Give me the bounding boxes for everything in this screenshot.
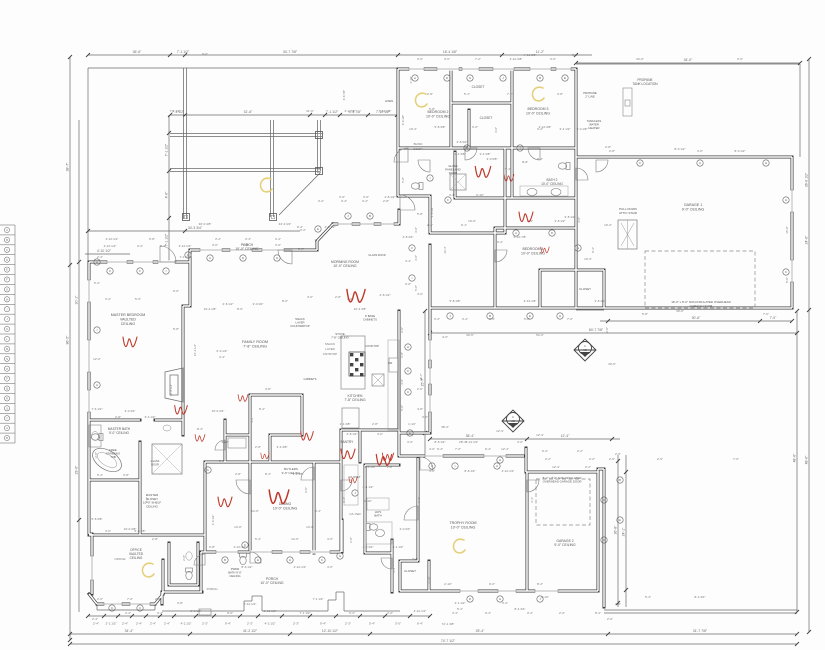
- svg-text:PORCH: PORCH: [207, 587, 218, 591]
- svg-text:TUB: TUB: [110, 455, 116, 459]
- svg-text:4'-6": 4'-6": [307, 295, 313, 299]
- svg-text:2'-8": 2'-8": [372, 422, 378, 426]
- svg-text:2'-4": 2'-4": [92, 617, 98, 621]
- svg-text:5'-4": 5'-4": [505, 167, 511, 171]
- svg-text:3'-8": 3'-8": [177, 601, 183, 605]
- svg-text:10'-3": 10'-3": [584, 257, 592, 261]
- svg-text:B: B: [369, 214, 371, 218]
- svg-text:8'-0": 8'-0": [237, 307, 243, 311]
- svg-text:38'-4": 38'-4": [466, 434, 475, 438]
- svg-text:6'-0 1/2": 6'-0 1/2": [217, 349, 228, 353]
- svg-text:10'-0" CEILING: 10'-0" CEILING: [426, 114, 450, 118]
- svg-text:CEILING: CEILING: [146, 504, 159, 508]
- svg-text:TROPHY ROOM: TROPHY ROOM: [449, 521, 476, 525]
- svg-text:B: B: [619, 478, 621, 482]
- svg-text:10'-0" CEILING: 10'-0" CEILING: [451, 525, 476, 529]
- svg-text:41'-2 1/2": 41'-2 1/2": [243, 629, 258, 633]
- svg-text:P: P: [6, 377, 8, 381]
- svg-text:2'-4": 2'-4": [150, 622, 156, 626]
- svg-text:3'-0": 3'-0": [275, 243, 281, 247]
- svg-text:11'-2": 11'-2": [536, 50, 545, 54]
- svg-text:5'-4": 5'-4": [97, 473, 103, 477]
- svg-text:2'-10": 2'-10": [541, 595, 549, 599]
- svg-text:54'-0": 54'-0": [536, 333, 544, 337]
- svg-text:13'-4": 13'-4": [443, 246, 447, 253]
- svg-text:12'-4": 12'-4": [496, 429, 504, 433]
- svg-text:7'-1 1/2": 7'-1 1/2": [300, 611, 311, 615]
- svg-text:GLASS DOOR: GLASS DOOR: [368, 253, 385, 257]
- svg-text:3'-8 1/2": 3'-8 1/2": [565, 215, 576, 219]
- svg-text:4'-10 1/2": 4'-10 1/2": [106, 237, 119, 241]
- svg-text:2'-3": 2'-3": [345, 622, 351, 626]
- svg-text:4'-0": 4'-0": [442, 335, 448, 339]
- svg-text:8'-8 1/2": 8'-8 1/2": [435, 440, 446, 444]
- svg-text:6'-8": 6'-8": [149, 237, 155, 241]
- svg-text:F: F: [6, 278, 8, 282]
- svg-text:CLOSET: CLOSET: [404, 569, 416, 573]
- svg-text:2'-8 1/2": 2'-8 1/2": [347, 432, 358, 436]
- svg-text:3'-4": 3'-4": [275, 237, 281, 241]
- svg-text:3'-4": 3'-4": [362, 199, 368, 203]
- svg-text:6'-8": 6'-8": [400, 352, 404, 358]
- svg-text:6'-4": 6'-4": [417, 622, 423, 626]
- svg-text:9'-4": 9'-4": [225, 622, 231, 626]
- svg-text:9'-4": 9'-4": [485, 447, 491, 451]
- svg-text:24'-1": 24'-1": [622, 527, 626, 536]
- svg-text:10'-3": 10'-3": [604, 223, 612, 227]
- svg-text:4'-0": 4'-0": [417, 292, 423, 296]
- svg-text:7'-0": 7'-0": [770, 316, 778, 320]
- svg-text:3'-0 1/8": 3'-0 1/8": [577, 127, 588, 131]
- svg-text:4'-10 1/2": 4'-10 1/2": [97, 249, 112, 253]
- svg-text:30'-6": 30'-6": [608, 362, 616, 366]
- svg-text:ATTIC STAIR: ATTIC STAIR: [619, 211, 638, 215]
- svg-text:9'-4": 9'-4": [320, 622, 326, 626]
- svg-text:3'-8 1/2": 3'-8 1/2": [555, 219, 566, 223]
- svg-text:E: E: [257, 558, 259, 562]
- svg-text:CNTRTOP: CNTRTOP: [323, 352, 337, 356]
- svg-text:BATH: BATH: [374, 514, 381, 518]
- svg-text:7'-1 1/2": 7'-1 1/2": [177, 50, 190, 54]
- svg-text:2'-2": 2'-2": [585, 465, 591, 469]
- svg-text:2'-0": 2'-0": [97, 597, 103, 601]
- svg-text:4'-0": 4'-0": [407, 440, 413, 444]
- svg-text:12'-0": 12'-0": [93, 357, 101, 361]
- svg-text:3'-4": 3'-4": [215, 237, 221, 241]
- svg-text:3'-4 3/8": 3'-4 3/8": [293, 472, 304, 476]
- svg-text:10'-0 3/4": 10'-0 3/4": [212, 409, 225, 413]
- svg-text:3'-4": 3'-4": [137, 244, 143, 248]
- svg-text:14'-0": 14'-0": [291, 537, 299, 541]
- svg-text:4'-10 1/2": 4'-10 1/2": [104, 244, 117, 248]
- svg-text:16'-4 1/8": 16'-4 1/8": [443, 50, 458, 54]
- svg-text:3'-4": 3'-4": [392, 567, 396, 573]
- svg-text:8'-0": 8'-0": [282, 299, 288, 303]
- svg-text:2'-0": 2'-0": [400, 327, 404, 333]
- svg-text:GARAGE DOOR: GARAGE DOOR: [690, 304, 714, 308]
- svg-text:H: H: [559, 314, 561, 318]
- svg-text:2'-4": 2'-4": [136, 622, 142, 626]
- svg-text:K: K: [699, 161, 701, 165]
- svg-text:3'-8 1/2": 3'-8 1/2": [595, 299, 606, 303]
- svg-text:9'-4": 9'-4": [485, 611, 491, 615]
- svg-text:30'-6": 30'-6": [692, 316, 701, 320]
- svg-text:3'-0": 3'-0": [572, 53, 578, 57]
- svg-text:4'-8 3/4": 4'-8 3/4": [457, 140, 468, 144]
- svg-text:10'-0" CEILING: 10'-0" CEILING: [273, 506, 298, 510]
- svg-text:3'-4": 3'-4": [349, 611, 355, 615]
- svg-text:34'-3 3/4": 34'-3 3/4": [188, 226, 203, 230]
- svg-text:A2: A2: [583, 348, 587, 352]
- svg-text:DOOR: DOOR: [414, 147, 424, 151]
- svg-text:2'-0 1/2": 2'-0 1/2": [191, 609, 202, 613]
- svg-text:CEILING: CEILING: [229, 574, 240, 578]
- svg-text:9'-8 7/8": 9'-8 7/8": [342, 90, 346, 101]
- svg-text:3'-8": 3'-8": [209, 545, 215, 549]
- svg-text:5'-8 1/8": 5'-8 1/8": [450, 299, 461, 303]
- svg-text:16'-8": 16'-8": [785, 226, 789, 233]
- svg-text:3'-0": 3'-0": [417, 57, 423, 61]
- svg-text:2'-10": 2'-10": [444, 582, 452, 586]
- svg-text:4'-0": 4'-0": [327, 565, 333, 569]
- svg-text:7'-0": 7'-0": [127, 597, 133, 601]
- svg-text:5'-4": 5'-4": [255, 537, 261, 541]
- svg-text:2'-8": 2'-8": [427, 223, 433, 227]
- svg-text:3'-4": 3'-4": [530, 497, 534, 503]
- svg-text:2'-0": 2'-0": [155, 597, 161, 601]
- svg-text:3'-4 3/8": 3'-4 3/8": [480, 152, 491, 156]
- svg-text:2'-6": 2'-6": [657, 457, 663, 461]
- svg-text:3'-0": 3'-0": [339, 195, 345, 199]
- svg-text:14'-0": 14'-0": [251, 509, 259, 513]
- svg-text:2'-8": 2'-8": [235, 472, 241, 476]
- svg-text:3'-4": 3'-4": [157, 611, 163, 615]
- svg-text:A: A: [6, 228, 8, 232]
- svg-text:4'-10 1/2": 4'-10 1/2": [414, 609, 427, 613]
- svg-text:3'-4": 3'-4": [125, 611, 131, 615]
- svg-text:2'-2": 2'-2": [545, 457, 551, 461]
- svg-text:LAYER: LAYER: [325, 347, 335, 351]
- svg-text:A: A: [414, 76, 416, 80]
- svg-text:3'-4 1/2": 3'-4 1/2": [145, 415, 156, 419]
- svg-text:4'-0 3/4": 4'-0 3/4": [363, 545, 374, 549]
- svg-text:2'-8": 2'-8": [152, 537, 158, 541]
- svg-text:9'-0": 9'-0": [227, 611, 233, 615]
- svg-text:5'-8": 5'-8": [524, 317, 530, 321]
- svg-text:H: H: [785, 198, 787, 202]
- svg-text:2'-4": 2'-4": [164, 622, 170, 626]
- svg-text:2'-8": 2'-8": [115, 415, 121, 419]
- svg-text:2'-8": 2'-8": [609, 149, 615, 153]
- svg-text:7'-8" CEILING: 7'-8" CEILING: [344, 398, 366, 402]
- svg-text:3'-8": 3'-8": [557, 92, 563, 96]
- svg-text:4'-0": 4'-0": [429, 469, 435, 473]
- svg-text:7'-6": 7'-6": [567, 317, 573, 321]
- svg-text:3'-4 3/8": 3'-4 3/8": [455, 152, 466, 156]
- svg-text:36'-6": 36'-6": [133, 50, 142, 54]
- svg-text:3'-4": 3'-4": [462, 317, 468, 321]
- svg-text:5'-4": 5'-4": [369, 622, 375, 626]
- svg-text:4'-4": 4'-4": [405, 259, 411, 263]
- svg-text:E: E: [317, 227, 319, 231]
- svg-text:4'-0 1/2": 4'-0 1/2": [211, 515, 215, 526]
- svg-text:2'-2": 2'-2": [589, 457, 595, 461]
- svg-text:5'-8": 5'-8": [173, 327, 179, 331]
- svg-text:10'-9": 10'-9": [468, 219, 476, 223]
- svg-text:24'-6": 24'-6": [805, 235, 809, 244]
- svg-text:3'-0": 3'-0": [472, 125, 478, 129]
- svg-text:4'-8 1/2": 4'-8 1/2": [385, 195, 396, 199]
- svg-text:4'-0": 4'-0": [429, 447, 435, 451]
- svg-text:4'-8 3/4": 4'-8 3/4": [403, 235, 414, 239]
- svg-text:36'-8": 36'-8": [614, 525, 618, 534]
- svg-text:34'-3 3/4": 34'-3 3/4": [279, 222, 292, 226]
- svg-text:FAMILY ROOM: FAMILY ROOM: [242, 340, 268, 344]
- svg-text:7'-2": 7'-2": [507, 92, 513, 96]
- svg-text:3'-0": 3'-0": [363, 195, 369, 199]
- svg-text:A: A: [96, 383, 98, 387]
- svg-text:2'-8": 2'-8": [387, 465, 393, 469]
- svg-text:HEATER: HEATER: [588, 126, 599, 130]
- svg-text:OVERHEAD GARAGE DOOR: OVERHEAD GARAGE DOOR: [543, 480, 582, 484]
- svg-text:4'-0": 4'-0": [327, 537, 333, 541]
- svg-text:10'-4": 10'-4": [409, 127, 417, 131]
- svg-text:8'-4 3/4": 8'-4 3/4": [695, 595, 706, 599]
- svg-text:9'-0 1/8": 9'-0 1/8": [401, 115, 405, 126]
- svg-text:7'-0": 7'-0": [763, 312, 769, 316]
- svg-text:3'-4": 3'-4": [250, 417, 254, 423]
- svg-text:4'-10 1/2": 4'-10 1/2": [294, 565, 307, 569]
- svg-text:31'-7 7/8": 31'-7 7/8": [693, 629, 708, 633]
- svg-text:2'-4": 2'-4": [97, 255, 103, 259]
- svg-text:4'-10 3/8": 4'-10 3/8": [539, 125, 552, 129]
- svg-text:2'-0": 2'-0": [559, 611, 565, 615]
- svg-text:3'-0": 3'-0": [219, 459, 225, 463]
- svg-text:5'-8 3/8": 5'-8 3/8": [435, 125, 446, 129]
- svg-text:8'-8 1/2": 8'-8 1/2": [465, 469, 476, 473]
- svg-text:1'-4 3/8": 1'-4 3/8": [365, 465, 376, 469]
- svg-text:8'-4": 8'-4": [537, 582, 543, 586]
- svg-text:84'-7 7/8": 84'-7 7/8": [589, 328, 604, 332]
- svg-text:9'-0": 9'-0": [173, 289, 179, 293]
- svg-text:5'-8": 5'-8": [429, 107, 435, 111]
- svg-text:9'-0": 9'-0": [304, 487, 308, 493]
- svg-text:TANK LOCATION: TANK LOCATION: [632, 82, 658, 86]
- svg-text:2'-6": 2'-6": [607, 617, 613, 621]
- svg-text:E: E: [564, 76, 566, 80]
- svg-text:B: B: [539, 76, 541, 80]
- svg-text:8'-4": 8'-4": [197, 427, 203, 431]
- svg-text:10'-0" CEILING: 10'-0" CEILING: [541, 182, 563, 186]
- svg-text:K: K: [321, 558, 323, 562]
- svg-text:F: F: [139, 269, 141, 273]
- svg-text:34'-7 7/8": 34'-7 7/8": [283, 50, 298, 54]
- svg-text:3'-4 1/2": 3'-4 1/2": [560, 127, 571, 131]
- svg-text:SNACK: SNACK: [325, 342, 335, 346]
- svg-text:CEILING: CEILING: [130, 556, 143, 560]
- svg-text:25'-7": 25'-7": [419, 373, 423, 380]
- svg-text:2'-10": 2'-10": [364, 499, 372, 503]
- svg-text:25'-4": 25'-4": [476, 629, 485, 633]
- svg-text:2'-6": 2'-6": [609, 457, 615, 461]
- svg-text:D: D: [6, 258, 8, 262]
- svg-text:9'-4": 9'-4": [297, 225, 303, 229]
- svg-text:3'-0": 3'-0": [422, 415, 428, 419]
- svg-text:CLOSET: CLOSET: [472, 85, 485, 89]
- svg-text:GARAGE 1: GARAGE 1: [684, 203, 702, 207]
- svg-text:3'-0": 3'-0": [414, 227, 418, 233]
- svg-text:12'-10 1/2": 12'-10 1/2": [322, 629, 339, 633]
- svg-text:SEAT: SEAT: [221, 440, 228, 444]
- svg-text:B: B: [6, 238, 8, 242]
- svg-text:34'-4": 34'-4": [125, 629, 134, 633]
- svg-text:CLOSET: CLOSET: [349, 475, 360, 479]
- svg-text:E: E: [409, 431, 411, 435]
- svg-text:DOOR: DOOR: [449, 171, 457, 175]
- svg-text:4'-4": 4'-4": [219, 355, 225, 359]
- svg-text:3'-0": 3'-0": [395, 622, 401, 626]
- svg-text:5'-4": 5'-4": [145, 497, 149, 503]
- svg-text:36'-6 1/2": 36'-6 1/2": [805, 172, 809, 187]
- svg-text:H: H: [6, 297, 8, 301]
- svg-text:VAULTED: VAULTED: [120, 317, 136, 321]
- svg-text:2'-8 1/2": 2'-8 1/2": [223, 302, 234, 306]
- svg-text:16'-4 1/8": 16'-4 1/8": [204, 307, 217, 311]
- svg-text:12'-4": 12'-4": [561, 434, 570, 438]
- svg-text:4'-10 1/2": 4'-10 1/2": [502, 469, 515, 473]
- svg-text:2'-10 1/2": 2'-10 1/2": [244, 602, 257, 606]
- svg-text:8'-4": 8'-4": [259, 407, 265, 411]
- svg-text:48'-6": 48'-6": [805, 455, 809, 464]
- svg-text:CABINETS: CABINETS: [304, 377, 317, 381]
- svg-text:4'-6": 4'-6": [165, 191, 169, 199]
- svg-text:2'-3": 2'-3": [293, 622, 299, 626]
- svg-text:74'-7 1/2": 74'-7 1/2": [441, 639, 456, 643]
- svg-text:3'-0 5/8": 3'-0 5/8": [487, 157, 498, 161]
- svg-text:N: N: [6, 357, 8, 361]
- svg-text:8'-0 1/2": 8'-0 1/2": [735, 149, 746, 153]
- svg-text:A: A: [496, 464, 498, 468]
- svg-text:3'-8": 3'-8": [298, 247, 304, 251]
- svg-text:9'-8": 9'-8": [417, 497, 421, 503]
- svg-text:A: A: [6, 426, 8, 430]
- svg-text:10'-0" CEILING: 10'-0" CEILING: [235, 247, 259, 251]
- svg-text:9'-4": 9'-4": [522, 160, 528, 164]
- svg-text:CEILING: CEILING: [121, 322, 136, 326]
- svg-text:7'-1 1/2": 7'-1 1/2": [165, 143, 169, 156]
- svg-text:S: S: [6, 406, 8, 410]
- svg-text:K: K: [785, 270, 787, 274]
- svg-text:28'-4": 28'-4": [459, 440, 467, 444]
- svg-text:16'-4 1/2": 16'-4 1/2": [193, 344, 197, 356]
- svg-text:3'-0": 3'-0": [405, 282, 411, 286]
- svg-text:9'-4": 9'-4": [542, 449, 548, 453]
- svg-text:5'-8": 5'-8": [417, 212, 423, 216]
- svg-text:4'-8": 4'-8": [417, 407, 423, 411]
- svg-text:CLOSET: CLOSET: [480, 116, 493, 120]
- svg-text:30'-0 3/8": 30'-0 3/8": [199, 222, 212, 226]
- svg-text:2'-3": 2'-3": [247, 622, 253, 626]
- svg-text:5'-4": 5'-4": [645, 595, 651, 599]
- svg-text:5'-8": 5'-8": [642, 312, 648, 316]
- svg-text:DOOR: DOOR: [151, 462, 159, 466]
- svg-text:7'-8" CEILING: 7'-8" CEILING: [331, 336, 349, 340]
- svg-text:7'-6 1/2": 7'-6 1/2": [92, 407, 103, 411]
- svg-text:4'-8": 4'-8": [265, 387, 271, 391]
- svg-text:B: B: [466, 146, 468, 150]
- svg-text:9'-0" CEILING: 9'-0" CEILING: [554, 543, 576, 547]
- svg-text:2'-6": 2'-6": [615, 602, 621, 606]
- svg-text:3'-4": 3'-4": [434, 317, 440, 321]
- svg-text:3'-4": 3'-4": [342, 497, 346, 503]
- svg-text:K: K: [407, 369, 409, 373]
- svg-text:3'-4": 3'-4": [160, 244, 166, 248]
- svg-text:2'-4": 2'-4": [122, 622, 128, 626]
- svg-text:PANTRY: PANTRY: [341, 440, 355, 444]
- svg-text:3'-8": 3'-8": [123, 473, 129, 477]
- svg-text:5'-0": 5'-0": [135, 297, 141, 301]
- svg-text:3'-0": 3'-0": [737, 57, 743, 61]
- svg-text:4'-0": 4'-0": [517, 440, 523, 444]
- svg-text:3'-4": 3'-4": [412, 557, 418, 561]
- svg-text:K: K: [6, 327, 8, 331]
- svg-text:CLOSET: CLOSET: [579, 287, 591, 291]
- svg-text:31'-6": 31'-6": [244, 110, 253, 114]
- svg-text:8'-4 3/4": 8'-4 3/4": [515, 607, 526, 611]
- svg-text:7'-1 1/2": 7'-1 1/2": [313, 597, 324, 601]
- svg-text:7'-1 1/2": 7'-1 1/2": [326, 110, 339, 114]
- svg-text:C: C: [6, 248, 8, 252]
- svg-text:MASTER BEDROOM: MASTER BEDROOM: [111, 313, 146, 317]
- svg-text:G: G: [6, 288, 8, 292]
- svg-text:10'-4 3/8": 10'-4 3/8": [354, 307, 367, 311]
- svg-text:E: E: [619, 518, 621, 522]
- svg-text:COUNTERTOP: COUNTERTOP: [290, 324, 310, 328]
- svg-text:3'-4": 3'-4": [497, 240, 503, 244]
- svg-text:GLASS: GLASS: [151, 459, 160, 463]
- svg-text:OFFICE: OFFICE: [115, 557, 126, 561]
- svg-text:5'-8 3/8": 5'-8 3/8": [135, 529, 146, 533]
- svg-text:5'-4": 5'-4": [94, 281, 100, 285]
- svg-text:4'-0 3/4": 4'-0 3/4": [400, 527, 411, 531]
- svg-text:3'-4": 3'-4": [527, 611, 533, 615]
- svg-text:4'-1 1/2": 4'-1 1/2": [393, 545, 404, 549]
- svg-text:2" LINE: 2" LINE: [585, 95, 595, 99]
- svg-text:1'-4 3/8": 1'-4 3/8": [340, 422, 351, 426]
- svg-text:3'-0": 3'-0": [494, 127, 498, 133]
- svg-text:5'-8": 5'-8": [401, 177, 405, 183]
- svg-text:3'-0": 3'-0": [212, 243, 218, 247]
- svg-text:7'-8" CEILING: 7'-8" CEILING: [243, 345, 267, 349]
- svg-text:3'-0 3/4": 3'-0 3/4": [125, 409, 136, 413]
- svg-text:5'-8 3/8": 5'-8 3/8": [92, 517, 103, 521]
- svg-text:3'-6": 3'-6": [444, 57, 450, 61]
- svg-text:CA-YER: CA-YER: [349, 512, 361, 516]
- svg-text:34'-0": 34'-0": [684, 58, 693, 62]
- svg-text:10'-0" CEILING: 10'-0" CEILING: [526, 111, 550, 115]
- svg-text:9'-0": 9'-0": [243, 243, 249, 247]
- svg-text:7'-2": 7'-2": [475, 57, 481, 61]
- svg-text:2'-8": 2'-8": [383, 199, 389, 203]
- svg-text:8'-4": 8'-4": [265, 472, 271, 476]
- svg-text:1'-10": 1'-10": [408, 422, 416, 426]
- svg-text:F: F: [139, 606, 141, 610]
- svg-text:2'-8": 2'-8": [427, 92, 433, 96]
- svg-text:3'-4": 3'-4": [245, 237, 251, 241]
- svg-text:38'-7": 38'-7": [66, 162, 70, 171]
- svg-text:2'-4": 2'-4": [93, 622, 99, 626]
- svg-text:4'-2 1/2": 4'-2 1/2": [265, 622, 276, 626]
